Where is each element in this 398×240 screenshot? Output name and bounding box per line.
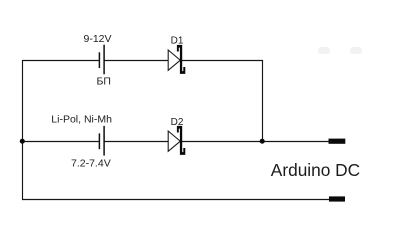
- svg-text:D2: D2: [171, 117, 184, 128]
- wire D1 cathode to top-right corner: [182, 60, 263, 62]
- battery 2 long plate (positive): [103, 126, 105, 156]
- battery BP long plate (positive): [103, 45, 105, 75]
- junction dot left (node battery minus bus): [20, 139, 25, 144]
- wire bottom rail to lower terminal: [22, 199, 330, 201]
- svg-text:D1: D1: [171, 36, 184, 47]
- diode D1 schottky cathode bar: [177, 45, 185, 74]
- wire left vertical rail: [22, 60, 24, 200]
- watermark smudge left: [318, 47, 330, 54]
- diode D2 schottky cathode bar: [177, 126, 185, 155]
- svg-text:Li-Pol, Ni-Mh: Li-Pol, Ni-Mh: [51, 113, 112, 125]
- wire mid-left horizontal (junction to battery 2): [22, 141, 99, 143]
- wire D2 cathode through junction to output terminal: [182, 141, 329, 143]
- battery 2 short plate (negative): [98, 133, 100, 149]
- wire top-left horizontal (node + of BP to D1): [22, 60, 99, 62]
- watermark smudge right: [350, 47, 362, 54]
- junction dot right (node diode outputs): [260, 139, 265, 144]
- terminal bar minus (Arduino DC -): [329, 196, 345, 201]
- wire battery 2 to diode D2 anode: [104, 141, 168, 143]
- terminal bar plus (Arduino DC +): [329, 139, 346, 144]
- svg-text:9-12V: 9-12V: [84, 33, 112, 45]
- svg-text:7.2-7.4V: 7.2-7.4V: [71, 157, 111, 169]
- diode D2 triangle (anode): [168, 131, 180, 151]
- svg-text:БП: БП: [97, 76, 111, 88]
- wire right vertical drop to junction: [262, 60, 264, 141]
- diode D1 triangle (anode): [168, 50, 180, 70]
- wire battery BP to diode D1 anode: [104, 60, 168, 62]
- svg-text:Arduino DC: Arduino DC: [271, 160, 360, 180]
- battery BP short plate (negative): [98, 52, 100, 68]
